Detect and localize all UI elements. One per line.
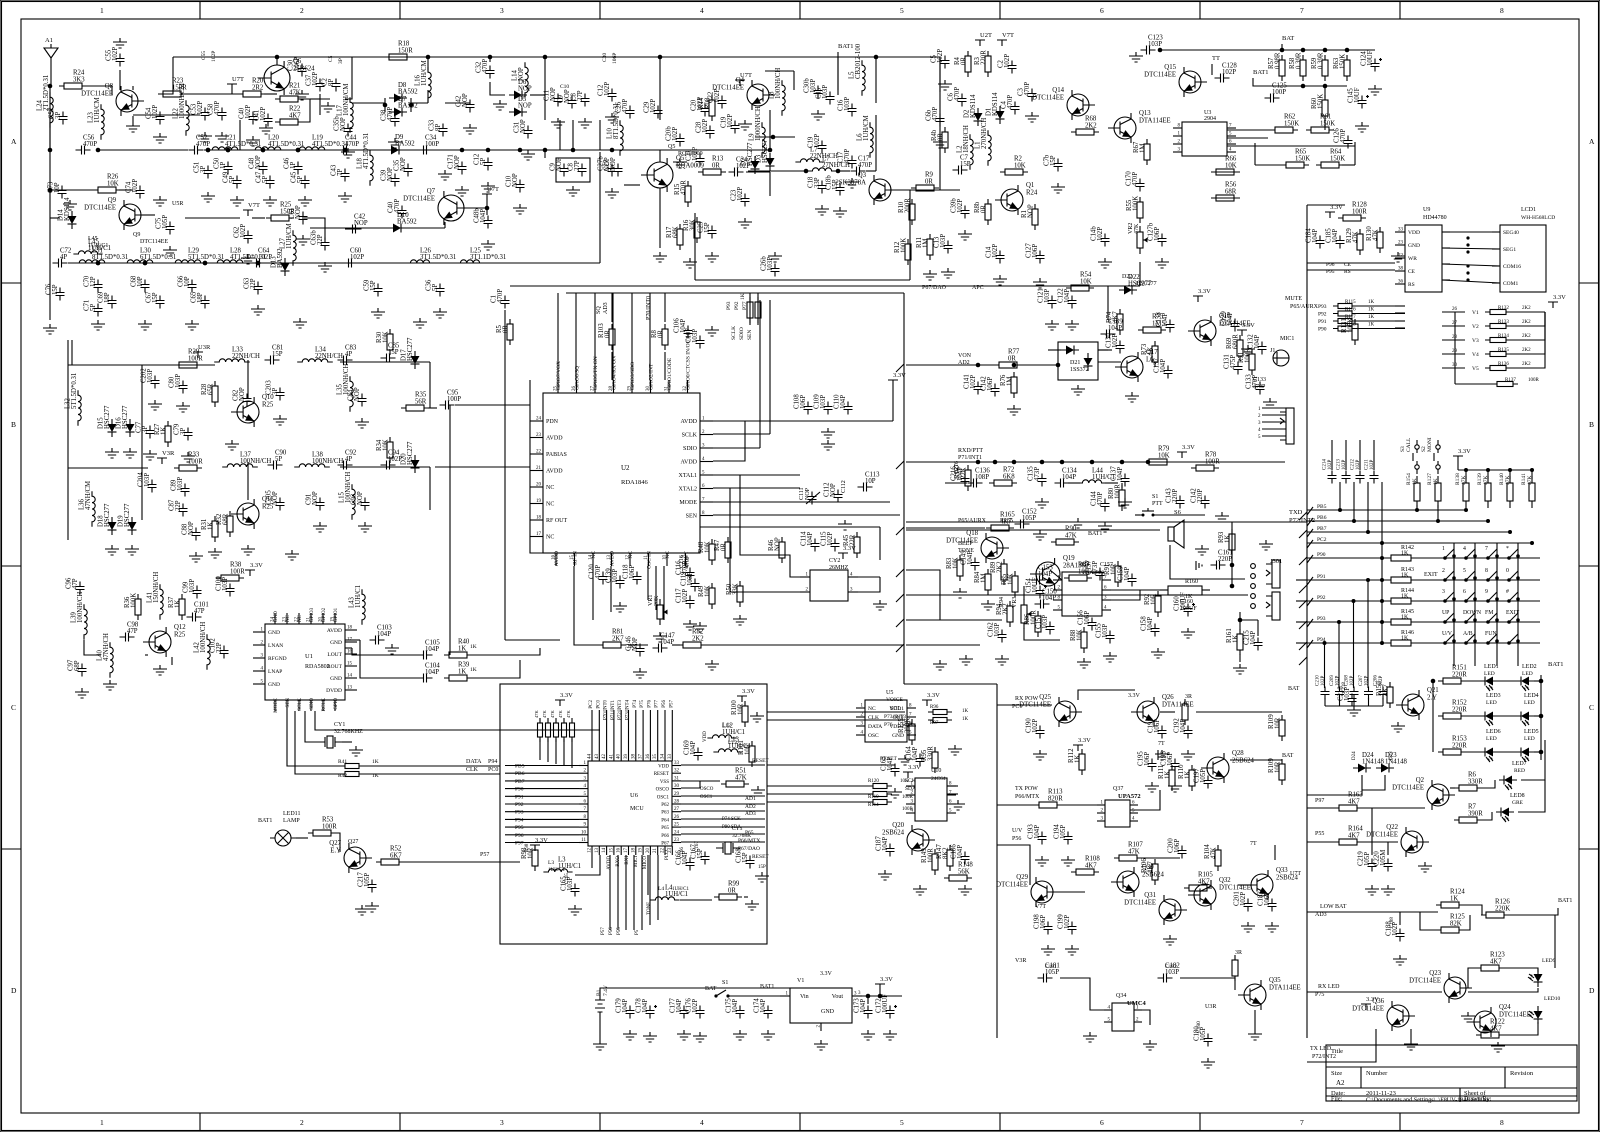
wire — [1307, 1029, 1376, 1062]
svg-text:7.4V: 7.4V — [603, 985, 609, 996]
svg-text:Q37: Q37 — [1113, 786, 1123, 792]
wire — [1480, 812, 1492, 820]
speaker S6 — [1168, 509, 1184, 548]
svg-text:470P: 470P — [394, 199, 401, 213]
resistor R77 — [994, 349, 1022, 369]
transistor Q8 — [81, 83, 144, 116]
node C157 — [1100, 562, 1113, 568]
svg-text:1UH/CM: 1UH/CM — [863, 115, 870, 141]
svg-text:470P: 470P — [497, 289, 504, 303]
svg-text:13: 13 — [595, 848, 600, 854]
ground — [198, 132, 212, 142]
inductor L42 — [194, 622, 211, 670]
transistor Q28 — [1201, 750, 1255, 783]
svg-text:R64: R64 — [1330, 149, 1342, 156]
svg-text:R126: R126 — [1495, 899, 1510, 906]
potentiometer VR3 — [1012, 597, 1032, 629]
junction — [343, 148, 348, 153]
wire — [613, 710, 615, 752]
svg-text:100R: 100R — [322, 824, 337, 831]
ground — [521, 150, 535, 160]
inductor L37 — [222, 452, 271, 468]
resistor R97 — [928, 717, 969, 726]
svg-text:P94: P94 — [515, 817, 524, 823]
node P93 — [1318, 304, 1327, 310]
wire — [185, 217, 240, 219]
inductor L35 — [337, 364, 354, 412]
node U3R — [1205, 1004, 1216, 1010]
svg-text:LED4: LED4 — [1524, 693, 1539, 699]
svg-text:22P: 22P — [175, 500, 182, 511]
resistor R5 — [496, 319, 513, 345]
ground — [705, 326, 719, 336]
svg-text:5P: 5P — [262, 176, 269, 183]
capacitor C18 — [808, 176, 827, 193]
switch key 1 — [1442, 546, 1456, 560]
svg-text:AVDD: AVDD — [327, 628, 342, 634]
capacitor C190 — [1026, 718, 1045, 739]
svg-text:U3R: U3R — [198, 344, 211, 351]
resistor R23 — [158, 78, 187, 98]
capacitor C144 — [1091, 491, 1110, 512]
wire — [310, 227, 388, 229]
svg-text:UP: UP — [1442, 610, 1449, 616]
resistor R14 — [698, 95, 715, 121]
resistor R54 — [1066, 272, 1094, 292]
capacitor C53 — [191, 101, 210, 121]
node P75 — [1315, 992, 1324, 998]
node C181 — [1045, 964, 1057, 970]
svg-text:BAT1: BAT1 — [838, 43, 854, 50]
junction — [256, 261, 261, 266]
wire — [997, 804, 1035, 806]
svg-text:P66/MTX: P66/MTX — [1015, 794, 1040, 800]
wire — [867, 996, 869, 1004]
svg-text:Q34: Q34 — [1116, 993, 1126, 999]
ground — [888, 788, 902, 798]
svg-text:10K: 10K — [705, 541, 712, 553]
wire 3.3V rail — [1458, 462, 1532, 470]
wire — [505, 765, 579, 767]
wire — [1395, 327, 1405, 329]
node SDA — [905, 786, 916, 792]
power U3R — [193, 344, 211, 358]
wire — [695, 279, 910, 281]
power 3.3V — [875, 976, 893, 990]
wire — [749, 293, 751, 325]
ground — [1077, 658, 1091, 668]
node 1K — [470, 667, 477, 673]
wire section border power left — [996, 684, 998, 1038]
node — [0, 0, 1, 1]
wire — [1353, 482, 1355, 521]
svg-text:GND: GND — [268, 682, 280, 688]
wire — [713, 421, 745, 461]
wire — [345, 647, 352, 649]
capacitor C22 — [708, 89, 727, 109]
svg-text:C55: C55 — [201, 51, 207, 60]
ground — [1265, 922, 1279, 932]
wire row PC2 — [1307, 540, 1532, 548]
switch key 8 — [1485, 568, 1499, 582]
resistor R155 — [898, 718, 915, 745]
svg-text:R56: R56 — [1225, 182, 1237, 189]
node U/V — [1012, 828, 1023, 834]
wire — [713, 488, 810, 592]
node BAT — [1288, 686, 1300, 692]
wire — [1412, 642, 1540, 644]
resistor R42 — [338, 772, 379, 780]
wire — [360, 765, 500, 767]
svg-text:1: 1 — [100, 6, 104, 15]
connector J301 — [1266, 560, 1280, 620]
capacitor C175 — [726, 998, 745, 1019]
wire — [1170, 545, 1245, 579]
inductor L12 — [707, 723, 745, 739]
svg-text:4T1.5D*0.31: 4T1.5D*0.31 — [268, 141, 304, 148]
svg-text:10P: 10P — [137, 276, 144, 287]
resistor R66 — [1211, 156, 1239, 176]
svg-text:1UH/C1: 1UH/C1 — [672, 887, 689, 892]
ground — [705, 252, 719, 262]
wire — [1257, 620, 1259, 636]
capacitor C181 — [1038, 963, 1060, 983]
svg-text:10K: 10K — [1158, 453, 1170, 460]
svg-text:Q5: Q5 — [668, 144, 675, 150]
wire — [1410, 1029, 1412, 1040]
svg-text:680R: 680R — [1233, 334, 1240, 349]
svg-text:#: # — [1506, 589, 1509, 595]
ground — [358, 522, 372, 532]
resistor R89 — [990, 559, 1007, 585]
wire — [793, 71, 795, 90]
capacitor C27 — [604, 157, 623, 176]
resistor R100 — [731, 700, 748, 727]
svg-text:100P: 100P — [447, 396, 461, 403]
capacitor C127b — [1148, 222, 1167, 246]
resistor R25 — [266, 202, 295, 222]
wire — [647, 566, 649, 600]
wire — [1231, 522, 1233, 565]
wire — [1355, 305, 1405, 307]
capacitor C159 — [1118, 566, 1137, 587]
wire — [574, 566, 600, 645]
node P67/DAO — [738, 846, 760, 852]
node 1UH/C1 — [88, 243, 108, 249]
ground — [1215, 512, 1229, 522]
capacitor C30b — [804, 78, 823, 99]
resistor R139 — [1477, 473, 1491, 508]
svg-text:7T: 7T — [1158, 741, 1165, 747]
svg-text:FUN: FUN — [1485, 631, 1497, 637]
op-amp U3 2904 — [1173, 110, 1236, 156]
resistor R109 — [1268, 758, 1285, 785]
resistor R71 — [1238, 348, 1255, 375]
svg-text:5P: 5P — [275, 456, 282, 463]
inductor L14 — [512, 62, 529, 98]
svg-text:1K: 1K — [1165, 771, 1172, 779]
ground — [693, 1032, 707, 1042]
wire row P91 — [1307, 577, 1390, 585]
wire — [1395, 320, 1405, 322]
svg-text:R96: R96 — [930, 705, 939, 710]
capacitor C61 — [289, 205, 308, 224]
wire — [875, 115, 877, 171]
ground — [341, 148, 355, 158]
svg-text:102P: 102P — [1350, 676, 1355, 687]
svg-text:10K: 10K — [107, 181, 119, 188]
svg-text:47K: 47K — [1353, 231, 1360, 243]
junction — [261, 148, 266, 153]
node 3 — [858, 991, 861, 996]
resistor R111 — [1158, 765, 1175, 791]
svg-text:SEN: SEN — [747, 330, 753, 340]
junction — [1539, 714, 1544, 719]
wire — [449, 560, 451, 655]
node V5 — [1472, 366, 1479, 372]
wire section border mcu box — [500, 684, 767, 944]
switch S2 MONI — [1421, 437, 1440, 474]
svg-text:R38: R38 — [230, 562, 242, 569]
ground — [1263, 398, 1277, 408]
junction — [1230, 563, 1235, 568]
wire — [1211, 64, 1213, 75]
svg-text:15P: 15P — [704, 222, 711, 233]
svg-text:3.3V: 3.3V — [250, 562, 263, 569]
svg-text:104P: 104P — [1312, 229, 1319, 243]
svg-text:LOW BAT: LOW BAT — [1320, 904, 1347, 910]
svg-text:1K: 1K — [1433, 478, 1439, 485]
node TX POW — [1015, 786, 1038, 792]
svg-text:PB5: PB5 — [1317, 504, 1327, 510]
svg-text:PB6: PB6 — [515, 771, 525, 777]
wire — [655, 566, 657, 610]
svg-text:7P: 7P — [337, 169, 344, 176]
wire — [663, 566, 665, 620]
resistor R33 — [174, 452, 203, 472]
ground — [1259, 540, 1273, 550]
svg-text:470P: 470P — [685, 555, 691, 568]
capacitor C77 — [136, 421, 155, 438]
svg-text:4K7: 4K7 — [1085, 863, 1097, 870]
wire — [1102, 590, 1140, 600]
svg-text:V7T: V7T — [1002, 32, 1014, 39]
diode D18 — [98, 503, 117, 535]
inductor L25 — [455, 248, 506, 264]
svg-text:104P: 104P — [1038, 571, 1052, 578]
svg-text:103P: 103P — [147, 369, 154, 383]
svg-text:8T1.5D*0.31: 8T1.5D*0.31 — [613, 103, 620, 139]
inductor L5 — [849, 43, 866, 96]
resistor R61 — [1306, 114, 1335, 134]
svg-text:14: 14 — [602, 848, 607, 854]
junction — [261, 148, 266, 153]
diode D13 — [271, 248, 290, 276]
wire — [1355, 320, 1405, 322]
svg-text:P92: P92 — [734, 301, 740, 310]
ground — [913, 885, 927, 895]
capacitor C16 — [838, 97, 857, 117]
inductor L19 — [294, 135, 348, 151]
switch key 2 — [1442, 568, 1456, 582]
capacitor C161 — [1211, 550, 1233, 570]
diode D23 — [1376, 752, 1408, 773]
svg-text:470P: 470P — [482, 59, 489, 73]
resistor R99 — [714, 881, 742, 901]
capacitor C32 — [476, 59, 495, 79]
wire — [295, 711, 344, 774]
capacitor C212 — [1351, 440, 1365, 484]
ground — [105, 545, 119, 555]
node C166 — [680, 847, 685, 858]
capacitor C200 — [1168, 838, 1187, 859]
svg-text:R25: R25 — [280, 202, 292, 209]
ground — [883, 1030, 897, 1040]
svg-text:1M: 1M — [1007, 377, 1014, 386]
node 30 — [1452, 363, 1458, 368]
transistor Q2 — [1392, 777, 1455, 810]
svg-text:V7T: V7T — [248, 202, 260, 209]
diode D24 — [1353, 752, 1385, 773]
svg-text:HSC277: HSC277 — [407, 441, 414, 465]
svg-text:4P: 4P — [60, 254, 67, 261]
capacitor C24 — [729, 157, 751, 177]
wire — [599, 152, 601, 263]
ground — [1071, 385, 1085, 395]
node TT — [1212, 55, 1220, 62]
wire — [1534, 680, 1541, 682]
switch key U/V — [1442, 631, 1456, 645]
ground — [923, 270, 937, 280]
svg-text:68R: 68R — [223, 513, 230, 525]
wire — [1442, 353, 1465, 355]
capacitor C80 — [169, 374, 188, 394]
junction — [1280, 48, 1285, 53]
ground — [481, 240, 495, 250]
svg-text:47P: 47P — [194, 608, 205, 615]
wire — [1371, 808, 1373, 855]
capacitor C9 C8 shield — [556, 158, 590, 182]
svg-text:GPIO1/CODE: GPIO1/CODE — [667, 357, 673, 390]
ground — [933, 660, 947, 670]
node BAT1 — [760, 984, 774, 990]
svg-text:470P: 470P — [1132, 172, 1139, 186]
resistor R51 — [721, 768, 749, 788]
capacitor C39 — [381, 167, 400, 186]
wire — [1412, 579, 1540, 581]
wire — [671, 710, 673, 752]
svg-text:47K: 47K — [542, 710, 547, 719]
transistor Q30 — [1111, 864, 1165, 897]
svg-text:V7T: V7T — [1035, 904, 1046, 910]
svg-text:106P: 106P — [1040, 915, 1047, 929]
svg-text:104P: 104P — [676, 999, 683, 1013]
node P90 SDA — [722, 825, 741, 830]
capacitor C198 — [1034, 914, 1053, 935]
svg-text:GND: GND — [330, 676, 342, 682]
ground — [833, 207, 847, 217]
svg-text:3P: 3P — [180, 428, 187, 435]
svg-text:24: 24 — [674, 830, 680, 835]
wire — [1324, 643, 1326, 688]
resistor R142 — [1386, 545, 1416, 561]
diode D17 — [401, 337, 420, 369]
svg-text:RESET: RESET — [752, 758, 769, 764]
capacitor C3 — [1018, 82, 1037, 102]
junction — [1040, 460, 1045, 465]
resistor R122 — [1476, 1019, 1505, 1039]
svg-text:47K: 47K — [534, 710, 539, 719]
junction — [1380, 556, 1384, 560]
wire — [755, 136, 795, 138]
svg-text:CY3: CY3 — [732, 826, 743, 832]
power 3.3V — [922, 692, 940, 706]
svg-text:C210: C210 — [1316, 675, 1321, 686]
svg-text:NOP: NOP — [556, 157, 563, 171]
capacitor C153 — [1031, 565, 1054, 585]
svg-text:103P: 103P — [994, 623, 1001, 637]
node BAT1 — [1558, 898, 1572, 904]
svg-text:PB7: PB7 — [1317, 526, 1327, 532]
capacitor C146 — [626, 636, 645, 657]
capacitor C183 — [1258, 891, 1277, 912]
ground — [123, 448, 137, 458]
node 7T — [1158, 741, 1165, 747]
node PC1 — [1012, 704, 1022, 710]
capacitor C35 — [394, 157, 413, 176]
resistor R133 — [1485, 320, 1531, 329]
svg-text:P92: P92 — [515, 802, 524, 808]
svg-text:0R: 0R — [938, 133, 945, 141]
resistor R116 — [1333, 308, 1375, 317]
svg-text:Q9: Q9 — [133, 232, 140, 238]
junction — [1366, 530, 1370, 534]
node PB7 — [515, 779, 525, 785]
svg-text:102P: 102P — [672, 127, 679, 141]
capacitor C112 — [824, 482, 843, 503]
power 3.3V — [1073, 737, 1091, 751]
capacitor C188 — [1386, 921, 1405, 942]
wire — [1462, 905, 1482, 915]
wire — [571, 739, 573, 768]
svg-text:10K: 10K — [1225, 163, 1237, 170]
wire — [544, 150, 546, 158]
wire — [624, 149, 700, 151]
capacitor C193 — [1028, 824, 1047, 845]
ground — [733, 1030, 747, 1040]
svg-text:100K: 100K — [1348, 318, 1355, 333]
wire — [464, 207, 487, 209]
svg-text:20K: 20K — [654, 595, 660, 606]
svg-text:R97: R97 — [930, 721, 939, 726]
diode D22 — [1119, 274, 1152, 295]
ground — [653, 252, 667, 262]
svg-text:5: 5 — [900, 6, 904, 15]
svg-text:3P: 3P — [55, 112, 62, 119]
svg-text:37: 37 — [639, 754, 644, 760]
svg-text:P95: P95 — [515, 825, 524, 831]
svg-text:NC: NC — [868, 706, 876, 712]
transistor Q20 — [882, 822, 935, 855]
svg-text:P67: P67 — [661, 842, 669, 847]
resistor R167 — [954, 464, 971, 491]
svg-text:4T1.5D*0.31: 4T1.5D*0.31 — [225, 141, 261, 148]
capacitor C216 — [951, 466, 970, 487]
capacitor C84 — [348, 387, 367, 406]
wire — [1399, 912, 1401, 925]
resistor R156 — [558, 710, 567, 743]
capacitor C107 — [686, 328, 705, 349]
